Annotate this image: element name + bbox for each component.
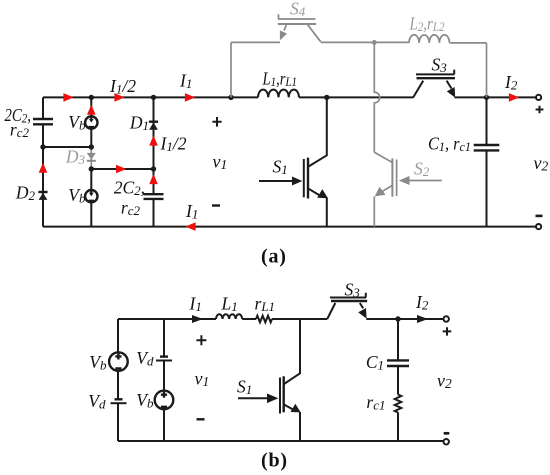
transistor S2 gate lead gray [409, 180, 442, 182]
svg-text:S4: S4 [290, 0, 306, 19]
svg-text:I1: I1 [189, 294, 202, 315]
transistor S1 gate lead (b) [238, 397, 268, 399]
transistor S3 body bar [417, 77, 456, 79]
svg-text:C1: C1 [366, 352, 384, 373]
battery Vd mid (b) [160, 355, 168, 357]
terminal plus (a) [536, 95, 541, 100]
svg-text:rL1: rL1 [255, 294, 276, 315]
arrow red right I2 [509, 93, 519, 102]
transistor S2 body bar gray [391, 158, 393, 196]
transistor S4 collector leg gray [308, 25, 321, 42]
label plus terminal (a) [536, 106, 544, 114]
svg-text:D1: D1 [129, 113, 149, 134]
svg-text:L1: L1 [221, 294, 238, 315]
label plus terminal (b) [443, 327, 452, 335]
junction dot C1 branch (b) [395, 316, 400, 321]
terminal minus (b) [444, 439, 449, 444]
transistor S1 gate lead [259, 180, 293, 182]
svg-text:rc2: rc2 [121, 198, 141, 219]
transistor S3 body bar (b) [331, 300, 367, 302]
svg-text:I1: I1 [179, 71, 192, 92]
transistor S2 gate bar gray [396, 160, 398, 197]
arrow red left bottom bus [185, 222, 195, 231]
transistor S1 gate bar [303, 159, 305, 197]
wire bottom bus (b) [118, 440, 443, 442]
wire bottom bus (a) [43, 226, 536, 228]
svg-text:v2: v2 [437, 371, 452, 392]
label minus v1 (b) [197, 418, 205, 420]
svg-text:S3: S3 [345, 280, 361, 301]
transistor S3 gate bar [416, 70, 454, 75]
svg-text:Vd: Vd [88, 391, 106, 412]
inductor L1 [258, 90, 299, 98]
source Vb mid polarity (b) [161, 392, 167, 407]
wire cross at y147 [43, 146, 91, 148]
transistor S2 emitter gray [382, 186, 393, 192]
wire Vb branch [90, 97, 92, 226]
wire D1 branch [153, 97, 155, 226]
wire left branch (b) mid [117, 371, 119, 399]
terminal minus (a) [536, 224, 541, 229]
source Vb top polarity [89, 116, 94, 127]
svg-text:v1: v1 [213, 152, 228, 173]
wire mid branch (b) lower [163, 409, 165, 441]
svg-text:Vd: Vd [136, 348, 154, 369]
wire top bus (a) left of S3 [43, 96, 258, 98]
svg-text:Vb: Vb [68, 185, 86, 206]
arrow red right on y169 wire [116, 165, 126, 174]
svg-text:L1,rL1: L1,rL1 [262, 69, 297, 90]
wire S2 emitter to bottom gray [373, 197, 375, 227]
arrow red up D1 branch upper [149, 135, 158, 145]
resistor rL1 (b) [256, 316, 272, 323]
wire top bus (b) left [118, 318, 216, 320]
transistor S3 emitter arrow [447, 81, 452, 89]
transistor S2 collector gray [374, 152, 392, 162]
wire C1 branch upper (b) [397, 319, 399, 360]
transistor S1 body bar [307, 158, 309, 199]
capacitor 2C2 right [144, 194, 164, 199]
source Vb bottom polarity [89, 190, 94, 201]
source Vb left circle (b) [109, 352, 128, 371]
transistor S4 gate bar gray [278, 14, 316, 19]
wire gray S2 riser with hop [374, 42, 379, 152]
label minus terminal (a) [536, 215, 543, 218]
wire C1 branch (a) [486, 97, 488, 226]
transistor S1 body bar (b) [283, 376, 285, 412]
capacitor 2C2 left [33, 119, 53, 124]
svg-text:I2: I2 [415, 292, 429, 313]
svg-text:L2,rL2: L2,rL2 [409, 14, 445, 35]
source Vb top circle [85, 116, 97, 128]
transistor S1 emitter (b) [284, 405, 293, 410]
wire cross at y169 [91, 168, 153, 170]
inductor L2 gray [409, 35, 449, 43]
svg-text:I1: I1 [185, 201, 198, 222]
svg-text:S1: S1 [273, 157, 288, 178]
diode D1 [149, 120, 158, 122]
wire gray L2 to C1 node [450, 43, 487, 98]
transistor S1 gate bar (b) [279, 378, 281, 414]
wire left branch [42, 97, 44, 226]
capacitor C1 (b) [387, 360, 409, 366]
label plus v1 [212, 117, 221, 127]
battery Vd left (b) [115, 398, 123, 400]
wire top bus (a) mid [299, 96, 413, 98]
terminal plus (b) [444, 316, 449, 321]
transistor S1 emitter [309, 189, 320, 195]
svg-text:S3: S3 [432, 55, 448, 76]
arrow black I2 (b) [417, 315, 428, 323]
diode D3 gray [87, 153, 96, 160]
svg-text:(b): (b) [261, 450, 288, 472]
svg-text:I1/2: I1/2 [109, 76, 136, 97]
svg-text:I2: I2 [504, 72, 518, 93]
source Vb left polarity (b) [115, 353, 121, 368]
wire D3 segment gray [90, 146, 92, 170]
wire top bus (a) right of S3 [455, 96, 536, 98]
arrow red right top bus 1 [63, 93, 73, 102]
svg-text:D3: D3 [65, 147, 86, 168]
label minus v1 [212, 204, 220, 206]
svg-text:I1/2: I1/2 [160, 134, 187, 155]
transistor S3 gate bar (b) [330, 293, 366, 298]
wire mid branch (b) middle [163, 361, 165, 391]
svg-text:Vb: Vb [89, 352, 107, 373]
svg-text:D2: D2 [15, 183, 36, 204]
svg-text:Vb: Vb [136, 390, 154, 411]
source Vb bottom circle [85, 190, 97, 202]
wire S1 emitter to bottom (b) [299, 412, 301, 441]
transistor S4 emitter arrow gray [284, 25, 286, 31]
wire rL1 to S3 (b) [272, 318, 327, 320]
wire C1 to rc1 (b) [397, 366, 399, 395]
wire top bus (b) right of S3 [366, 318, 443, 320]
wire gray S4 emitter side [231, 41, 280, 43]
svg-text:v1: v1 [195, 369, 210, 390]
transistor S3 emitter arrow (b) [360, 303, 363, 308]
inductor L1 (b) [216, 314, 242, 319]
arrow black I1 (b) [192, 315, 203, 323]
svg-text:Vb: Vb [68, 112, 86, 133]
wire rc1 to bottom (b) [397, 413, 399, 442]
svg-text:2C2,: 2C2, [5, 105, 32, 126]
arrow red up D1 branch lower [149, 174, 158, 184]
svg-text:C1, rc1: C1, rc1 [428, 134, 471, 155]
diode D2 [38, 191, 47, 193]
wire left branch (b) upper [117, 319, 119, 352]
junction dots top bus [89, 95, 94, 100]
svg-text:rc1: rc1 [366, 392, 385, 413]
resistor rc1 (b) [395, 395, 402, 413]
capacitor C1 (a) [474, 145, 500, 150]
svg-text:2C2,: 2C2, [114, 178, 145, 199]
transistor S1 collector (b) [284, 319, 300, 384]
source Vb mid circle (b) [155, 391, 174, 410]
svg-text:v2: v2 [534, 153, 549, 174]
arrow red up into Vb top [87, 105, 96, 115]
wire gray riser from top bus [230, 42, 232, 97]
junction gray dot [372, 40, 377, 45]
arrow red right top bus 3 [185, 93, 195, 102]
wire between L1 and rL1 (b) [242, 318, 256, 320]
transistor S3 collector leg [413, 81, 423, 98]
arrow red right top bus 2 [114, 93, 124, 102]
wire mid branch (b) upper [163, 319, 165, 357]
svg-text:S2: S2 [414, 159, 430, 180]
label minus terminal (b) [444, 432, 450, 435]
transistor S4 body bar gray [278, 23, 316, 25]
svg-text:S1: S1 [237, 377, 252, 398]
wire left branch (b) lower [117, 403, 119, 441]
wire S1 emitter to bottom [326, 198, 328, 227]
label plus v1 (b) [196, 335, 206, 345]
transistor S1 collector [309, 97, 327, 166]
arrow red up left branch [39, 163, 48, 173]
junction dots mid [40, 144, 45, 149]
svg-text:(a): (a) [261, 246, 287, 268]
wire gray S4 to L2 [321, 41, 409, 43]
transistor S3 collector leg (b) [327, 303, 335, 319]
